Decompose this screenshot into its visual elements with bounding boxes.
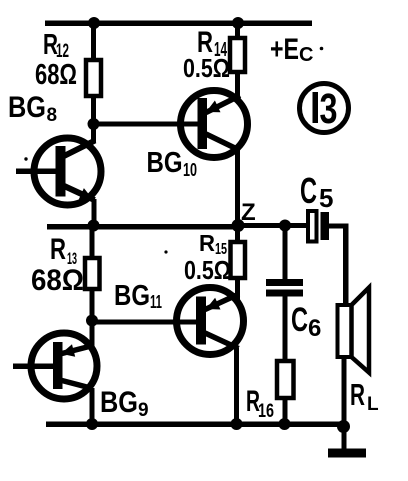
- wire: R13 to BG9 junction: [90, 289, 95, 323]
- svg-text:68Ω: 68Ω: [31, 264, 84, 297]
- wire: C5 to speaker branch: [328, 224, 348, 229]
- resistor R14: [230, 38, 245, 72]
- wire: R16 to bottom rail: [283, 398, 288, 426]
- svg-text:5: 5: [319, 183, 333, 213]
- svg-text:C: C: [291, 301, 308, 339]
- svg-text:R: R: [50, 233, 66, 266]
- label +Ec: [270, 33, 313, 66]
- wire: BG10 to node Z: [235, 149, 240, 228]
- svg-text:Z: Z: [241, 199, 256, 226]
- wire: R12 to BG8 collector: [91, 96, 96, 143]
- label BG10: [147, 147, 198, 180]
- wire: junction to BG9 collector: [90, 323, 95, 347]
- resistor R12: [86, 60, 101, 96]
- wire: R15 to BG11: [235, 278, 240, 300]
- wire: R14 to BG10: [235, 72, 240, 100]
- wire: top rail to R14: [235, 23, 240, 40]
- junction: top rail / R14: [232, 17, 244, 29]
- wire: junction to BG10 base: [93, 122, 199, 127]
- svg-text:+E: +E: [270, 33, 299, 66]
- svg-text:9: 9: [138, 400, 149, 421]
- ink speck near +Ec: [320, 47, 324, 51]
- transistor BG9: [31, 333, 97, 399]
- speaker RL: [338, 288, 370, 373]
- capacitor C6: [266, 279, 303, 297]
- wire: top rail to R12: [91, 23, 96, 61]
- wire: C6 to R16: [283, 296, 288, 363]
- junction: speaker / ground: [337, 420, 350, 433]
- label C6: [291, 301, 321, 342]
- ground: [328, 427, 366, 458]
- svg-text:16: 16: [258, 401, 274, 422]
- transistor BG8: [34, 138, 101, 205]
- label C5: [300, 170, 333, 213]
- wire: BG8 base lead: [16, 169, 58, 175]
- wire: BG8 emitter down: [92, 199, 97, 228]
- svg-text:BG: BG: [100, 386, 138, 419]
- wire: +Ec top supply rail: [45, 21, 312, 27]
- wire: output rail to R13: [90, 226, 95, 260]
- wire: speaker to ground junction: [342, 356, 347, 427]
- svg-text:R: R: [350, 377, 365, 412]
- label R16: [246, 385, 274, 422]
- junction: BG11 emitter / bottom rail: [231, 418, 243, 430]
- label R12: [43, 29, 69, 62]
- svg-text:3: 3: [320, 85, 338, 133]
- transistor BG10: [181, 91, 248, 158]
- label R15: [199, 230, 227, 258]
- node Z: [232, 219, 245, 232]
- junction: BG8 emitter / output rail: [88, 220, 100, 232]
- wire: node Z to R15: [235, 226, 240, 245]
- junction: R13 / BG9 collector / BG11 base: [86, 315, 98, 327]
- ink speck left of 0.5ohm R15: [164, 250, 167, 253]
- svg-text:C: C: [299, 44, 313, 66]
- junction: C6 branch: [279, 220, 291, 232]
- capacitor C5: [308, 211, 329, 242]
- svg-text:6: 6: [308, 315, 321, 342]
- svg-text:10: 10: [183, 160, 197, 180]
- svg-text:11: 11: [150, 292, 162, 312]
- label BG11: [114, 280, 162, 312]
- wire: BG9 base lead: [13, 364, 54, 370]
- wire: junction to BG11 base: [92, 320, 197, 325]
- figure number 13: [300, 84, 349, 134]
- svg-text:C: C: [300, 170, 317, 211]
- wire: BG9 emitter to bottom rail: [90, 388, 95, 426]
- resistor R16: [277, 361, 294, 398]
- wire: bottom rail: [46, 422, 345, 428]
- svg-text:L: L: [367, 394, 379, 415]
- junction: R16 / bottom rail: [279, 418, 291, 430]
- svg-text:R: R: [199, 230, 215, 256]
- label RL: [350, 377, 379, 415]
- label BG9: [100, 386, 149, 421]
- junction: R12 / BG8 collector / BG10 base: [88, 118, 100, 130]
- ink speck left of BG8: [24, 157, 27, 160]
- svg-text:BG: BG: [147, 147, 183, 179]
- label R13: [50, 233, 77, 268]
- svg-text:0.5Ω: 0.5Ω: [183, 53, 230, 83]
- svg-text:BG: BG: [114, 280, 150, 312]
- label R14: [197, 26, 228, 61]
- wire: BG11 emitter to bottom rail: [234, 348, 239, 426]
- resistor R13: [85, 258, 100, 289]
- svg-text:BG: BG: [8, 91, 46, 124]
- junction: top rail / R12: [88, 17, 100, 29]
- resistor R15: [231, 242, 246, 278]
- wire: C6 branch vertical: [283, 226, 288, 281]
- svg-text:0.5Ω: 0.5Ω: [184, 255, 231, 285]
- svg-text:68Ω: 68Ω: [35, 59, 77, 91]
- transistor BG11: [177, 288, 244, 355]
- wire: node Z to C5: [238, 223, 309, 228]
- wire: speaker branch vertical: [343, 224, 349, 308]
- wire: BG8 emitter rail to node Z: [47, 224, 238, 230]
- svg-text:8: 8: [47, 105, 58, 126]
- junction: BG9 emitter / bottom rail: [86, 418, 98, 430]
- label BG8: [8, 91, 57, 126]
